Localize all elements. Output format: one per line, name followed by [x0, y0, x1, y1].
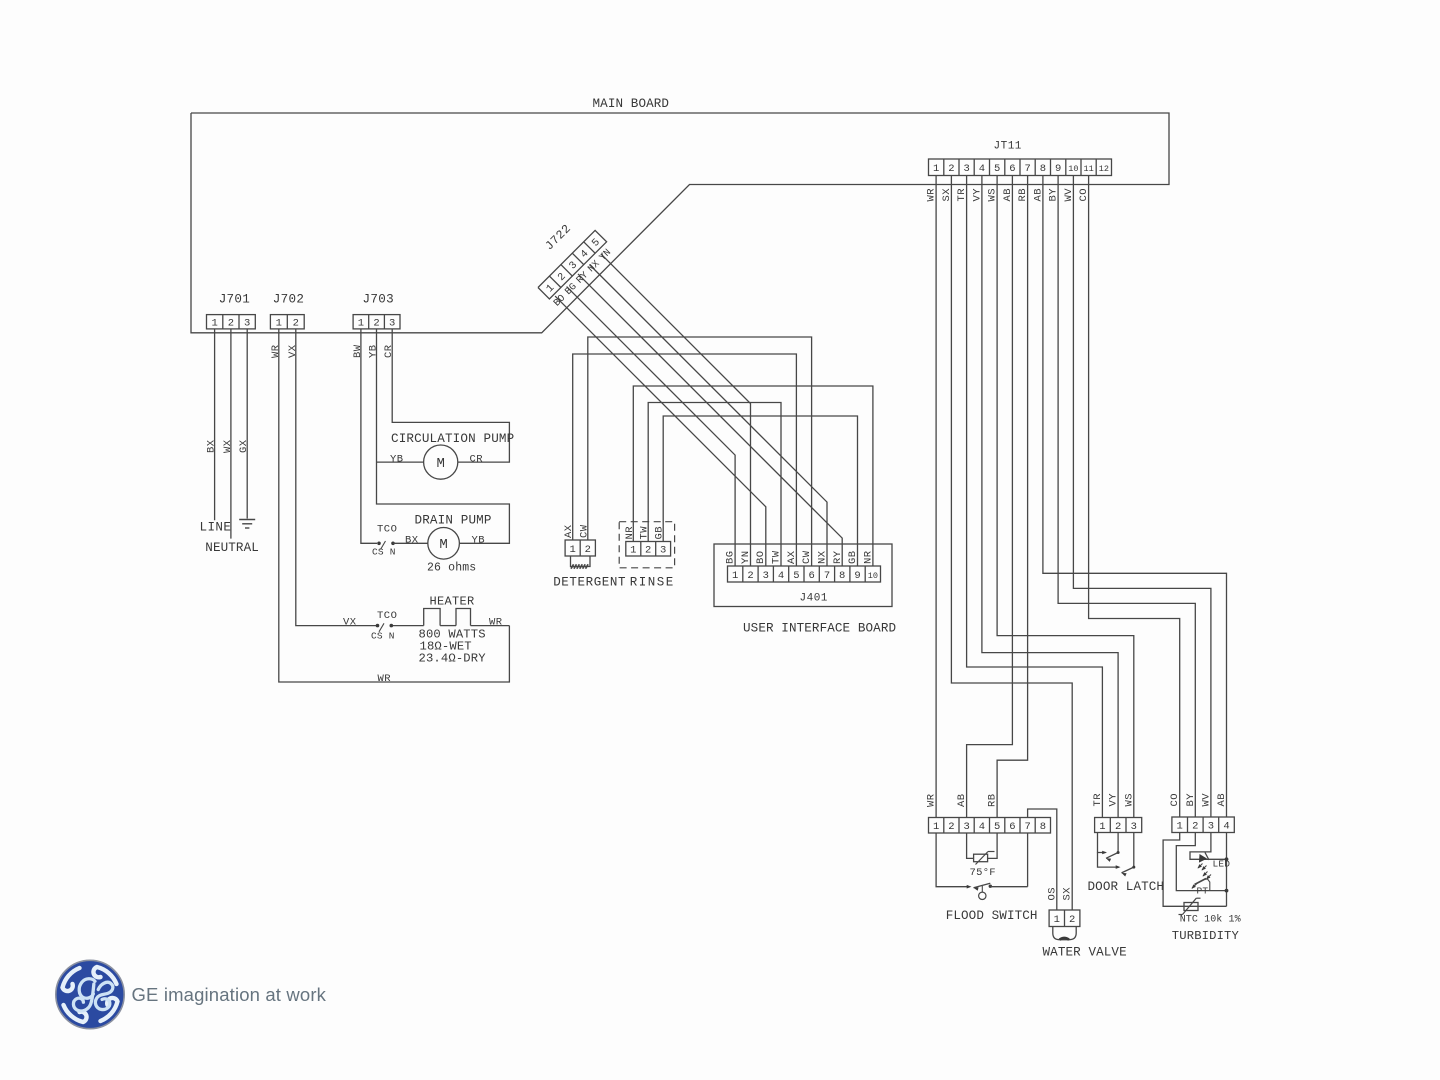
svg-text:AB: AB	[956, 793, 968, 807]
label WR bottom	[378, 673, 392, 685]
svg-text:GB: GB	[847, 550, 859, 564]
wire JT11 pin 8 AB	[1032, 176, 1226, 818]
svg-text:AB: AB	[1216, 793, 1228, 807]
label YB drain	[472, 535, 486, 547]
svg-text:M: M	[436, 456, 444, 472]
label FLOOD SWITCH	[946, 909, 1038, 923]
svg-text:10: 10	[868, 571, 878, 581]
wire WR heater return	[270, 329, 510, 682]
label USER INTERFACE BOARD	[743, 622, 896, 636]
water valve labels OS SX	[1046, 887, 1073, 901]
label MAIN BOARD	[593, 97, 670, 111]
svg-text:3: 3	[1131, 821, 1137, 833]
wire CR net	[383, 329, 509, 462]
svg-text:WR: WR	[489, 617, 503, 629]
svg-text:BY: BY	[1048, 188, 1060, 202]
svg-text:FLOOD SWITCH: FLOOD SWITCH	[946, 909, 1038, 923]
svg-text:3: 3	[389, 318, 395, 330]
label WR heater	[489, 617, 503, 629]
label NEUTRAL	[205, 541, 259, 555]
label DOOR LATCH	[1088, 880, 1165, 894]
svg-text:1: 1	[933, 163, 939, 175]
thermostat 75F	[967, 833, 998, 879]
TCO heater	[371, 610, 397, 642]
svg-text:1: 1	[933, 821, 939, 833]
wire CW	[578, 337, 811, 566]
NTC thermistor	[1179, 898, 1201, 914]
connector J701	[207, 293, 256, 330]
connector FLOOD SWITCH	[929, 818, 1051, 834]
svg-text:2: 2	[747, 570, 753, 582]
svg-text:DETERGENT: DETERGENT	[553, 576, 626, 590]
label LINE	[200, 521, 232, 535]
svg-text:23.4Ω-DRY: 23.4Ω-DRY	[419, 652, 487, 666]
flood switch wire labels	[926, 793, 999, 807]
svg-text:9: 9	[1055, 163, 1061, 175]
svg-text:NTC 10k 1%: NTC 10k 1%	[1180, 914, 1241, 926]
wire JT11 pin 10 WV	[1063, 176, 1211, 818]
turbidity wire pin2 PT	[1176, 833, 1226, 891]
svg-text:26 ohms: 26 ohms	[427, 562, 476, 575]
label DETERGENT	[553, 576, 626, 590]
svg-text:RY: RY	[832, 550, 844, 564]
wire JT11 pin 7 RB	[997, 176, 1029, 818]
svg-text:TR: TR	[956, 188, 968, 202]
svg-text:WX: WX	[222, 439, 234, 453]
wire flood pin7 to water valve OS	[1028, 809, 1057, 910]
svg-text:PT: PT	[1197, 886, 1209, 897]
svg-text:4: 4	[1223, 821, 1229, 833]
wire BX line	[206, 329, 218, 520]
svg-text:USER INTERFACE BOARD: USER INTERFACE BOARD	[743, 622, 896, 636]
label HEATER	[430, 595, 475, 609]
svg-text:8: 8	[1040, 821, 1046, 833]
svg-text:9: 9	[854, 570, 860, 582]
svg-text:GX: GX	[238, 439, 250, 453]
svg-text:BY: BY	[1185, 793, 1197, 807]
svg-text:TURBIDITY: TURBIDITY	[1172, 929, 1240, 943]
svg-text:DOOR LATCH: DOOR LATCH	[1088, 880, 1165, 894]
svg-text:YB: YB	[390, 454, 404, 466]
svg-text:YB: YB	[368, 344, 380, 358]
svg-text:1: 1	[1099, 821, 1105, 833]
svg-text:JT11: JT11	[994, 141, 1022, 153]
svg-text:2: 2	[948, 163, 954, 175]
svg-text:7: 7	[824, 570, 830, 582]
svg-text:2: 2	[1069, 914, 1075, 926]
svg-text:4: 4	[979, 821, 985, 833]
svg-text:4: 4	[979, 163, 985, 175]
svg-text:WR: WR	[926, 188, 938, 202]
wire YB net	[368, 329, 510, 543]
turbidity wire pin4 common	[1225, 833, 1229, 907]
svg-text:CS N: CS N	[371, 631, 395, 642]
ground symbol	[239, 520, 255, 529]
svg-text:1: 1	[1054, 914, 1060, 926]
svg-text:1: 1	[211, 318, 217, 330]
door latch switch 1	[1098, 833, 1120, 862]
svg-text:WV: WV	[1200, 793, 1212, 807]
wire TW	[639, 403, 781, 567]
label BX drain	[405, 535, 419, 547]
label 800 WATTS	[419, 628, 486, 642]
drain pump motor M	[428, 528, 460, 560]
svg-text:GE imagination at work: GE imagination at work	[132, 984, 327, 1005]
svg-text:WS: WS	[1123, 793, 1135, 807]
svg-text:CO: CO	[1169, 793, 1181, 807]
svg-text:2: 2	[1115, 821, 1121, 833]
label YB circulation	[390, 454, 404, 466]
svg-text:CS N: CS N	[372, 547, 396, 558]
svg-text:HEATER: HEATER	[430, 595, 475, 609]
svg-text:CO: CO	[1078, 188, 1090, 202]
svg-text:3: 3	[244, 318, 250, 330]
svg-text:LED: LED	[1213, 859, 1231, 870]
connector J703	[353, 293, 400, 330]
connector DOOR LATCH	[1095, 818, 1142, 833]
phototransistor PT	[1192, 872, 1212, 897]
wire GX ground	[238, 329, 250, 519]
label 23.4 ohm DRY	[419, 652, 487, 666]
svg-text:NR: NR	[624, 526, 636, 540]
label NTC 10k 1%	[1180, 914, 1241, 926]
svg-text:7: 7	[1024, 163, 1030, 175]
svg-text:1: 1	[732, 570, 738, 582]
connector J722	[538, 222, 607, 299]
wire J722 pin 3 RY	[574, 269, 842, 566]
heater element	[391, 609, 509, 626]
svg-text:3: 3	[660, 545, 666, 557]
connector J702	[270, 293, 304, 330]
svg-text:GB: GB	[654, 526, 666, 540]
circulation pump motor M	[424, 445, 458, 479]
svg-text:AX: AX	[786, 550, 798, 564]
svg-text:4: 4	[778, 570, 784, 582]
svg-text:1: 1	[1177, 821, 1183, 833]
svg-text:WR: WR	[378, 673, 392, 685]
water valve solenoid	[1053, 927, 1076, 940]
svg-text:6: 6	[1009, 163, 1015, 175]
svg-text:RINSE: RINSE	[630, 576, 675, 590]
label GE imagination at work	[132, 984, 327, 1005]
user interface board box	[714, 544, 892, 607]
svg-text:2: 2	[1192, 821, 1198, 833]
svg-text:BX: BX	[405, 535, 419, 547]
svg-text:2: 2	[948, 821, 954, 833]
svg-text:6: 6	[1009, 821, 1015, 833]
wire GB	[654, 416, 858, 566]
wire JT11 pin 1 WR	[926, 176, 938, 818]
svg-text:2: 2	[373, 318, 379, 330]
svg-text:BX: BX	[206, 439, 218, 453]
svg-text:6: 6	[808, 570, 814, 582]
svg-text:7: 7	[1024, 821, 1030, 833]
connector JT11	[929, 141, 1112, 176]
svg-text:NR: NR	[862, 550, 874, 564]
svg-text:CR: CR	[383, 344, 395, 358]
wire JT11 pin 4 VY	[971, 176, 1118, 818]
svg-text:WR: WR	[926, 793, 938, 807]
svg-text:BW: BW	[352, 344, 364, 358]
wire J722 pin 2 BG	[563, 281, 735, 566]
svg-text:CIRCULATION PUMP: CIRCULATION PUMP	[391, 432, 514, 446]
svg-text:75°F: 75°F	[970, 867, 996, 879]
svg-text:NEUTRAL: NEUTRAL	[205, 541, 259, 555]
wire NR	[624, 386, 873, 566]
label CIRCULATION PUMP	[391, 432, 514, 446]
turbidity wire pin1 NTC loop	[1163, 833, 1226, 907]
svg-text:WV: WV	[1063, 188, 1075, 202]
wire JT11 pin 5 WS	[987, 176, 1134, 818]
svg-text:WS: WS	[987, 188, 999, 202]
main board outline	[191, 113, 1169, 333]
svg-text:CW: CW	[801, 550, 813, 564]
LED	[1196, 852, 1230, 870]
svg-text:WATER VALVE: WATER VALVE	[1043, 946, 1127, 960]
connector DETERGENT	[565, 540, 595, 556]
svg-text:VY: VY	[971, 188, 983, 202]
svg-text:BG: BG	[725, 550, 737, 564]
svg-text:1: 1	[630, 545, 636, 557]
svg-text:M: M	[439, 537, 447, 553]
svg-text:YN: YN	[740, 550, 752, 564]
svg-text:TCO: TCO	[377, 524, 397, 536]
svg-text:SX: SX	[1062, 887, 1074, 901]
label 18 ohm WET	[420, 640, 472, 654]
svg-text:1: 1	[358, 318, 364, 330]
wire VX to heater TCO	[287, 329, 377, 626]
svg-text:TR: TR	[1092, 793, 1104, 807]
label TURBIDITY	[1172, 929, 1240, 943]
label DRAIN PUMP	[415, 514, 492, 528]
svg-text:3: 3	[1208, 821, 1214, 833]
label VX	[343, 616, 357, 628]
svg-text:2: 2	[585, 544, 591, 556]
wire BW to drain pump	[352, 329, 377, 543]
turbidity wire pin3 LED	[1190, 833, 1227, 860]
wire JT11 pin 11 CO	[1078, 176, 1180, 818]
svg-text:VX: VX	[287, 344, 299, 358]
svg-text:TW: TW	[771, 550, 783, 564]
wire WX neutral	[222, 329, 234, 539]
svg-text:J703: J703	[363, 293, 394, 307]
svg-text:11: 11	[1083, 164, 1093, 174]
connector TURBIDITY	[1172, 817, 1234, 833]
svg-text:AB: AB	[1032, 188, 1044, 202]
wire JT11 pin 9 BY	[1048, 176, 1196, 818]
svg-text:8: 8	[1040, 163, 1046, 175]
turbidity labels CO BY WV AB	[1169, 793, 1228, 807]
svg-text:OS: OS	[1046, 887, 1058, 901]
GE logo monogram	[56, 960, 124, 1028]
svg-text:YB: YB	[472, 535, 486, 547]
svg-text:AB: AB	[1002, 188, 1014, 202]
svg-text:J701: J701	[219, 293, 250, 307]
door latch switch 2	[1098, 833, 1136, 877]
svg-text:J702: J702	[273, 293, 304, 307]
wire J722 pin 4 NX	[586, 258, 827, 566]
wire J722 pin 5 YN	[597, 247, 750, 566]
svg-text:RB: RB	[987, 793, 999, 807]
svg-text:CW: CW	[578, 524, 590, 538]
float switch	[936, 833, 1028, 900]
TCO drain pump	[372, 524, 428, 558]
svg-text:DRAIN PUMP: DRAIN PUMP	[415, 514, 492, 528]
connector WATER VALVE	[1049, 910, 1080, 927]
svg-text:3: 3	[963, 163, 969, 175]
svg-text:WR: WR	[270, 344, 282, 358]
wire JT11 pin 2 SX	[941, 176, 1072, 911]
svg-text:1: 1	[570, 544, 576, 556]
label WATER VALVE	[1043, 946, 1127, 960]
svg-text:J401: J401	[800, 593, 828, 605]
svg-text:3: 3	[963, 821, 969, 833]
label 26 ohms	[427, 562, 476, 575]
svg-text:2: 2	[293, 318, 299, 330]
connector RINSE with dashed box	[619, 522, 674, 568]
svg-text:TCO: TCO	[377, 610, 397, 622]
svg-text:3: 3	[763, 570, 769, 582]
wire JT11 pin 6 AB	[967, 176, 1014, 818]
svg-text:TW: TW	[639, 526, 651, 540]
svg-text:RB: RB	[1017, 188, 1029, 202]
wire JT11 pin 3 TR	[956, 176, 1102, 818]
wire J722 pin 1 BO	[551, 292, 765, 566]
svg-text:CR: CR	[470, 454, 484, 466]
svg-text:VX: VX	[343, 616, 357, 628]
svg-text:10: 10	[1068, 164, 1078, 174]
wire AX	[563, 354, 796, 566]
svg-text:8: 8	[839, 570, 845, 582]
svg-text:BO: BO	[755, 550, 767, 564]
svg-text:2: 2	[228, 318, 234, 330]
label CR	[470, 454, 484, 466]
door latch labels TR VY WS	[1092, 793, 1135, 807]
label RINSE	[630, 576, 675, 590]
svg-text:12: 12	[1099, 164, 1109, 174]
svg-text:5: 5	[793, 570, 799, 582]
svg-text:5: 5	[994, 163, 1000, 175]
svg-text:5: 5	[994, 821, 1000, 833]
connector J401	[725, 550, 881, 604]
svg-text:VY: VY	[1108, 793, 1120, 807]
svg-text:NX: NX	[817, 550, 829, 564]
svg-text:LINE: LINE	[200, 521, 232, 535]
detergent actuator	[571, 556, 591, 569]
svg-text:1: 1	[276, 318, 282, 330]
svg-text:SX: SX	[941, 188, 953, 202]
svg-text:MAIN BOARD: MAIN BOARD	[593, 97, 670, 111]
svg-text:AX: AX	[563, 524, 575, 538]
svg-text:2: 2	[645, 545, 651, 557]
